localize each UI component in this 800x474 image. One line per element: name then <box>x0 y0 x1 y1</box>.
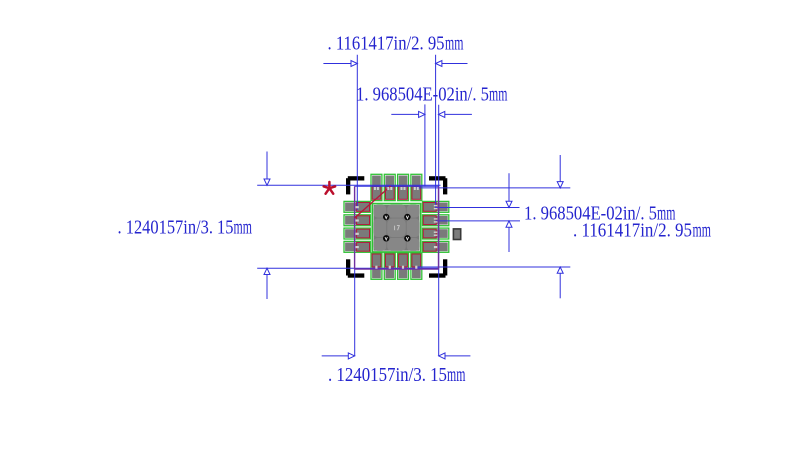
pin 1 marker line <box>355 186 391 218</box>
body outline top edge (blue) <box>354 185 438 187</box>
dim tick right 0.5 bottom <box>436 220 520 222</box>
pad 11 <box>423 215 449 226</box>
extension line left pad center <box>356 55 358 210</box>
pad 5 number <box>375 266 377 269</box>
dim arrow left 3.15 bottom <box>266 275 268 300</box>
courtyard corner bracket top-left <box>346 176 364 194</box>
pad 8 <box>411 253 422 279</box>
pad 3 <box>344 228 370 239</box>
dim tick right 0.5 top <box>436 207 520 209</box>
dim tick 3.15 bottom <box>257 267 438 269</box>
pad 2 <box>344 215 370 226</box>
svg-text:mm: mm <box>447 364 466 386</box>
courtyard corner bracket bottom-left <box>346 259 364 277</box>
pad 13 <box>411 174 422 200</box>
dim arrow top 0.5 right <box>445 113 472 115</box>
extension line 0.5 top right / bottom dim right <box>438 105 440 356</box>
extension line 0.5 top left <box>424 104 426 186</box>
pad 14 number <box>401 187 403 190</box>
dim tick right 2.95 bottom <box>416 266 570 268</box>
pad 13 number <box>414 187 416 190</box>
pad 15 number <box>387 187 389 190</box>
pad 12 <box>423 201 449 212</box>
via V bottom-left <box>383 235 389 241</box>
pad 17 number <box>395 226 400 231</box>
pad 7 number <box>402 266 404 269</box>
dim arrow bottom left <box>322 355 349 357</box>
svg-text:. 1161417in/2. 95: . 1161417in/2. 95 <box>328 33 445 55</box>
pad 11 number <box>434 218 438 219</box>
pad 16 <box>371 174 382 200</box>
via V bottom-right <box>404 235 410 241</box>
extension line right pad center <box>435 55 437 208</box>
pad 4 <box>344 241 370 252</box>
dim arrow right 0.5 bottom <box>508 227 510 252</box>
pad 1 <box>344 201 370 212</box>
svg-text:. 1240157in/3. 15: . 1240157in/3. 15 <box>328 364 447 386</box>
body outline bottom edge <box>355 268 439 270</box>
pad 8 number <box>415 266 417 269</box>
dim arrow top 2.95 right <box>442 63 468 65</box>
svg-text:. 1240157in/3. 15: . 1240157in/3. 15 <box>118 217 234 239</box>
pad 15 <box>384 174 395 200</box>
dim arrow right 2.95 bottom <box>559 273 561 298</box>
courtyard corner bracket bottom-right <box>429 259 447 277</box>
dim tick 3.15 top <box>257 184 440 186</box>
pad 6 <box>384 253 395 279</box>
body outline right edge <box>438 186 440 269</box>
dim arrow left 3.15 top <box>266 152 268 180</box>
via V top-left <box>383 214 389 220</box>
svg-text:mm: mm <box>693 220 712 242</box>
pad 16 number <box>374 187 376 190</box>
body outline left edge <box>354 186 356 269</box>
dim arrow bottom right <box>445 355 470 357</box>
pad 3 number <box>355 233 358 235</box>
pad 10 <box>423 228 449 239</box>
pin 1 asterisk <box>324 182 335 194</box>
svg-text:1. 968504E-02in/. 5: 1. 968504E-02in/. 5 <box>356 84 489 106</box>
pad 5 <box>371 253 382 279</box>
pad 2 number <box>355 219 358 221</box>
svg-text:mm: mm <box>234 217 253 239</box>
dim arrow top 0.5 left <box>391 113 418 115</box>
dim tick right 2.95 top <box>416 187 570 189</box>
svg-text:mm: mm <box>489 84 508 106</box>
extension line bottom dim left <box>354 269 356 356</box>
dim arrow top 2.95 left <box>323 63 351 65</box>
pad 9 number <box>434 246 437 248</box>
pad 7 <box>398 253 409 279</box>
dim arrow right 0.5 top <box>508 173 510 201</box>
svg-text:mm: mm <box>445 33 464 55</box>
pad 9 <box>423 241 449 252</box>
mechanical small square <box>453 229 460 240</box>
via V top-right <box>404 214 410 220</box>
pad 6 number <box>389 266 391 269</box>
pad 12 number <box>434 205 438 206</box>
pad 14 <box>398 174 409 200</box>
pad 4 number <box>355 246 358 248</box>
svg-text:. 1161417in/2. 95: . 1161417in/2. 95 <box>573 220 692 242</box>
dim arrow right 2.95 top <box>559 155 561 182</box>
pad 10 number <box>434 232 438 233</box>
courtyard corner bracket top-right <box>429 176 447 194</box>
thermal pad 17 <box>372 204 420 252</box>
pad 1 number <box>355 206 358 208</box>
